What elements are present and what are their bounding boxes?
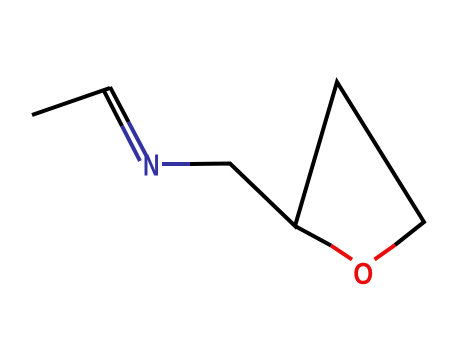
bond C=N double, outer line blue half (129, 122, 148, 157)
bond N-CH2, blue half at N (162, 162, 190, 166)
bond C=N double, inner line blue half (122, 126, 140, 161)
chain and ring black skeleton: N-CH2 black half, CH2-C2 diagonal, ring legs C2-C3-C4, C4-O black half (190, 82, 424, 245)
bond C=N double, outer line black half (110, 87, 129, 122)
bond C=N double, inner line black half (104, 91, 122, 126)
svg-text:O: O (353, 257, 373, 292)
bond C2-O red half (331, 246, 352, 260)
bond C4-O red half (375, 245, 396, 260)
bond C2-O black half (295, 226, 331, 246)
svg-text:N: N (143, 147, 160, 182)
bond CH3 methyl (32, 88, 110, 115)
